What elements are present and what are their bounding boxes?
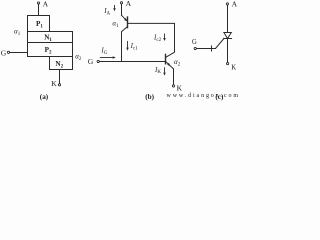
gate lead diagonal [196,39,224,49]
arrow I_c1 down [127,41,129,48]
thyristor triangle [224,33,231,39]
svg-text:K: K [51,79,57,88]
svg-text:A: A [232,0,238,9]
wire V2 emitter to K [173,69,175,85]
node G terminal circle (a) [7,51,9,53]
arrow I_A down [114,5,116,9]
svg-text:A: A [126,0,132,8]
arrow I_G right [100,57,113,59]
wire K (c) [227,39,229,63]
P1 region box [28,16,50,32]
wire V1 collector down [122,27,128,62]
svg-text:(a): (a) [40,93,49,101]
wire A down to V1 emitter [121,4,123,15]
svg-text:A: A [43,0,49,8]
N2 region box [50,57,73,70]
arrow I_K down [164,67,166,73]
wire G (a) [10,52,28,54]
node K terminal circle (b) [172,85,174,87]
svg-text:G: G [1,48,7,57]
node A terminal circle (a) [37,2,39,4]
node A terminal circle (b) [120,2,122,4]
svg-text:K: K [231,64,236,71]
wire A to P1 [38,4,40,15]
transistor V1 base bar [127,17,129,28]
wire V1 base to V2 collector [128,23,175,57]
transistor V1 emitter diagonal [122,15,127,20]
gate tick mark [211,46,213,51]
wire G to V2 base [99,61,165,63]
node K terminal circle (a) [58,84,60,86]
node A terminal circle (c) [226,3,228,5]
transistor V2 base bar [165,54,167,63]
thyristor cathode bar [224,38,232,40]
node G terminal circle (b) [97,60,99,62]
node K terminal circle (c) [227,63,229,65]
svg-text:(b): (b) [145,93,154,101]
svg-text:G: G [192,39,197,46]
arrowhead V1 emitter (PNP, into bar) [124,18,127,22]
N1 region band [28,32,73,43]
arrow I_c2 down [164,34,166,39]
wire A to symbol [227,5,229,32]
current arrows (b) [100,5,171,76]
P2 region band [28,43,73,57]
wire K (a) [59,70,61,84]
svg-text:K: K [177,83,183,92]
transistor V2 emitter diagonal [166,61,174,69]
node G terminal circle (c) [194,47,196,49]
svg-text:G: G [88,57,94,66]
arrowhead V2 emitter (NPN, away from bar) [167,63,170,66]
